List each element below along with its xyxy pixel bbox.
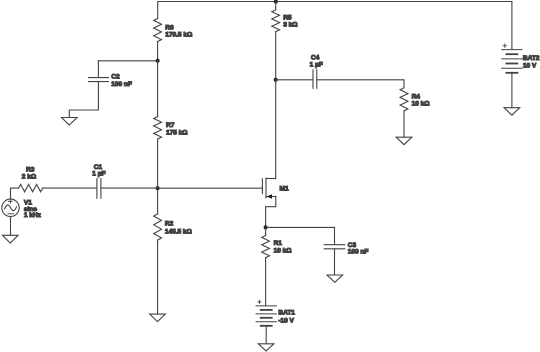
wire BAT1 to ground xyxy=(265,326,267,344)
svg-text:R6: R6 xyxy=(165,24,174,31)
wire C1 to node B xyxy=(101,187,158,189)
wire top supply rail xyxy=(158,2,512,50)
wire C4 to R4 xyxy=(317,80,404,88)
wire V1 to R3 xyxy=(11,188,19,199)
ground (C2) xyxy=(62,118,78,126)
svg-text:1 µF: 1 µF xyxy=(310,61,323,68)
wire R7 to node B xyxy=(157,139,159,188)
ground (BAT2) xyxy=(504,108,520,116)
svg-text:1 kHz: 1 kHz xyxy=(24,212,42,219)
node D (drain / C4 junction) xyxy=(274,78,278,82)
wire node D to M1 drain xyxy=(275,80,277,179)
wire node E to C3 xyxy=(266,226,335,228)
wire V1 to ground xyxy=(10,217,12,236)
wire R4 to ground xyxy=(403,111,405,137)
resistor R7 xyxy=(154,117,162,139)
wire node B to M1 gate xyxy=(158,187,263,189)
ground (R4) xyxy=(396,137,412,145)
svg-text:R1: R1 xyxy=(274,240,283,247)
svg-text:R7: R7 xyxy=(166,122,175,129)
resistor R2 xyxy=(154,214,162,240)
resistor R4 xyxy=(400,88,408,111)
svg-text:R3: R3 xyxy=(26,167,35,174)
ground (C3) xyxy=(327,275,343,282)
resistor R1 xyxy=(262,236,270,258)
node E (source / R1 / C3 junction) xyxy=(264,225,268,229)
wire R6 to node A xyxy=(157,42,159,61)
svg-text:BAT2: BAT2 xyxy=(523,55,540,62)
wire node D to C4 xyxy=(276,79,313,81)
svg-text:-10 V: -10 V xyxy=(278,318,294,325)
wire C3 to ground xyxy=(334,249,336,275)
resistor R5 xyxy=(272,10,280,32)
svg-text:10 kΩ: 10 kΩ xyxy=(274,247,293,254)
ground (V1) xyxy=(3,235,19,243)
svg-text:175 kΩ: 175 kΩ xyxy=(166,130,188,137)
svg-text:3 kΩ: 3 kΩ xyxy=(283,22,298,29)
svg-text:R5: R5 xyxy=(283,15,292,22)
wire node A to C2 xyxy=(98,60,157,62)
wire R1 to BAT1 xyxy=(265,258,267,306)
wire BAT2 to ground xyxy=(511,73,513,108)
capacitor C2 xyxy=(89,77,109,79)
svg-text:C2: C2 xyxy=(111,74,120,81)
svg-text:145.5 kΩ: 145.5 kΩ xyxy=(165,229,193,236)
wire R2 to ground xyxy=(157,240,159,314)
source V1 sine 1 kHz xyxy=(2,199,19,216)
wire R5 to node D xyxy=(275,32,277,80)
wire top rail to R5 xyxy=(275,2,277,10)
svg-text:10 V: 10 V xyxy=(523,63,537,70)
svg-text:R4: R4 xyxy=(412,94,421,101)
wire node E to R1 xyxy=(265,227,267,235)
node A (R6/R7/C2 junction) xyxy=(156,59,160,63)
resistor R3 xyxy=(19,184,43,191)
svg-text:M1: M1 xyxy=(280,185,289,192)
svg-text:100 nF: 100 nF xyxy=(348,249,369,256)
capacitor C1 xyxy=(96,179,98,199)
wire R3 to C1 xyxy=(43,187,97,189)
ground (BAT1) xyxy=(258,344,274,351)
transistor M1 xyxy=(261,179,263,194)
capacitor C4 xyxy=(312,70,314,89)
node B (gate bias junction) xyxy=(156,186,160,190)
wire node B to R2 xyxy=(157,188,159,214)
svg-text:BAT1: BAT1 xyxy=(278,310,295,317)
wire node A to R7 xyxy=(157,61,159,117)
wire C2 to ground xyxy=(69,82,98,118)
svg-text:1 µF: 1 µF xyxy=(92,171,105,178)
svg-text:179.5 kΩ: 179.5 kΩ xyxy=(165,32,193,39)
battery BAT1 xyxy=(256,305,276,307)
svg-text:10 kΩ: 10 kΩ xyxy=(412,101,431,108)
svg-text:100 nF: 100 nF xyxy=(111,81,132,88)
node C (top rail / R5) xyxy=(274,0,278,4)
resistor R6 xyxy=(154,19,162,42)
battery BAT2 xyxy=(502,49,522,51)
ground (R2) xyxy=(150,314,166,322)
svg-text:R2: R2 xyxy=(165,220,174,227)
capacitor C3 xyxy=(324,244,345,246)
svg-text:2 kΩ: 2 kΩ xyxy=(22,174,37,181)
